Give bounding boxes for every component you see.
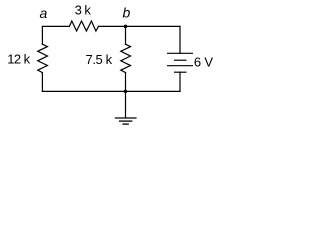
svg-text:a: a — [40, 5, 48, 21]
resistor R1 3 k (horizontal zigzag) — [69, 21, 98, 31]
svg-text:12 k: 12 k — [7, 51, 30, 66]
battery long plate top — [167, 52, 193, 54]
ground symbol bars — [115, 118, 137, 124]
resistor R2 12 k (vertical zigzag) — [38, 44, 48, 72]
battery long plate — [167, 65, 193, 67]
battery short plate bottom — [174, 71, 187, 73]
svg-text:6 V: 6 V — [194, 55, 213, 70]
wire middle branch lower — [125, 73, 127, 92]
battery short plate — [174, 59, 187, 61]
svg-text:b: b — [123, 5, 131, 21]
battery V1 plates — [167, 53, 193, 72]
resistor R3 7.5 k (vertical zigzag) — [121, 44, 131, 72]
svg-text:7.5 k: 7.5 k — [86, 52, 113, 67]
node b junction dot (top) — [124, 25, 128, 29]
wire middle branch upper node b — [125, 26, 127, 44]
wire top segment R1 to right corner — [99, 25, 181, 27]
wire right branch lower — [179, 72, 181, 91]
ground junction dot (bottom) — [124, 90, 128, 94]
wire right branch upper — [179, 26, 181, 53]
wire top segment node a to R1 — [42, 25, 69, 27]
wire bottom rail — [42, 90, 180, 92]
ground stem wire — [125, 91, 127, 117]
wire left branch lower — [41, 73, 43, 92]
wire left branch upper — [41, 26, 43, 44]
svg-text:3 k: 3 k — [75, 2, 92, 17]
